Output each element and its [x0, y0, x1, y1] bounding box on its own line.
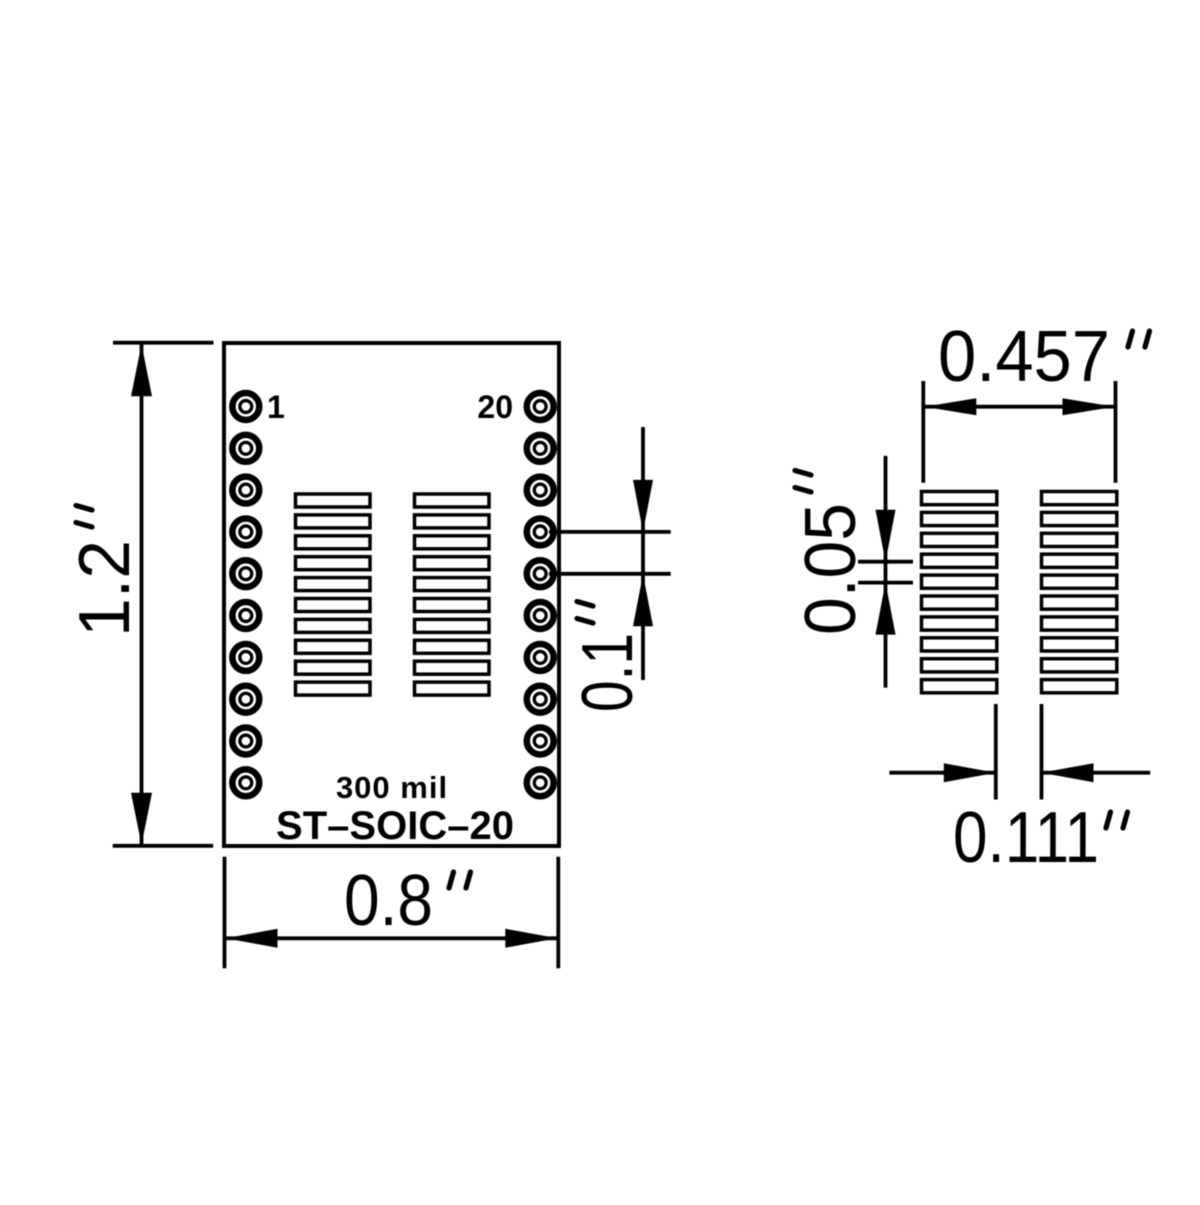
through-hole pad 17 [527, 518, 554, 545]
svg-text:1.2: 1.2 [65, 540, 145, 637]
detail SMD pad right row 6 [1042, 596, 1117, 609]
through-hole pad 1 [232, 393, 259, 420]
svg-text:300 mil: 300 mil [336, 770, 448, 805]
dimension 0.457in label [938, 317, 1150, 397]
svg-text:0.1: 0.1 [568, 633, 648, 712]
SMD pad right row 10 [415, 682, 490, 695]
SMD pad left row 8 [296, 640, 371, 653]
dimension 0.111in line left [889, 771, 995, 775]
SMD pad left row 7 [296, 619, 371, 632]
dimension 0.05in label [791, 471, 871, 636]
through-hole pad 9 [232, 728, 259, 755]
dimension 0.8in label [344, 861, 471, 941]
dimension 1.2in extension line top [113, 341, 214, 345]
dimension 0.1in label [568, 602, 648, 713]
detail SMD pad left row 9 [922, 659, 997, 672]
SMD pad right row 7 [415, 619, 490, 632]
SMD pad right row 1 [415, 494, 490, 507]
SMD pad left row 4 [296, 557, 371, 570]
dimension 1.2in line [140, 344, 144, 845]
dimension 0.8in line [226, 936, 558, 940]
svg-text:0.111: 0.111 [953, 798, 1099, 878]
board outline [224, 343, 559, 846]
through-hole pad 8 [232, 686, 259, 713]
dimension 0.111in extension line left [994, 704, 998, 800]
dimension 0.457in line [924, 405, 1114, 409]
svg-text:0.05: 0.05 [791, 503, 871, 635]
dimension 0.8in extension line left [223, 857, 227, 969]
SMD pad right row 3 [415, 536, 490, 549]
detail SMD pad left row 8 [922, 638, 997, 651]
through-hole pad 19 [527, 435, 554, 462]
through-hole pad 7 [232, 644, 259, 671]
SMD pad right row 9 [415, 661, 490, 674]
dimension 0.05in line [884, 456, 888, 688]
detail SMD pad left row 10 [922, 680, 997, 693]
detail SMD pad left row 2 [922, 512, 997, 525]
through-hole pad 11 [527, 769, 554, 796]
SMD pad right row 5 [415, 578, 490, 591]
detail SMD pad right row 8 [1042, 638, 1117, 651]
svg-text:0.8: 0.8 [344, 861, 433, 941]
through-hole pad 2 [232, 435, 259, 462]
detail SMD pad left row 7 [922, 617, 997, 630]
through-hole pad 3 [232, 477, 259, 504]
dimension 0.1in leader line lower [549, 572, 671, 576]
SMD pad right row 2 [415, 515, 490, 528]
detail SMD pad right row 4 [1042, 554, 1117, 567]
dimension 0.8in extension line right [556, 857, 560, 969]
svg-text:ST–SOIC–20: ST–SOIC–20 [276, 804, 514, 848]
SMD pad left row 3 [296, 536, 371, 549]
through-hole pad 15 [527, 602, 554, 629]
detail SMD pad right row 1 [1042, 492, 1117, 505]
dimension 0.111in arrow right [1042, 763, 1094, 782]
SMD pad right row 6 [415, 599, 490, 612]
dimension 0.111in label [953, 798, 1128, 878]
SMD pad left row 10 [296, 682, 371, 695]
dimension 0.05in arrow upper [876, 510, 896, 562]
dimension 1.2in label [65, 506, 145, 638]
detail SMD pad right row 2 [1042, 512, 1117, 525]
through-hole pad 12 [527, 728, 554, 755]
through-hole pad 6 [232, 602, 259, 629]
through-hole pad 14 [527, 644, 554, 671]
SMD pad left row 2 [296, 515, 371, 528]
detail SMD pad right row 7 [1042, 617, 1117, 630]
detail SMD pad right row 9 [1042, 659, 1117, 672]
dimension 0.457in arrow right [1063, 398, 1115, 415]
dimension 1.2in arrow bottom [131, 793, 152, 845]
detail SMD pad right row 10 [1042, 680, 1117, 693]
through-hole pad 10 [232, 769, 259, 796]
through-hole pad 20 [527, 393, 554, 420]
detail SMD pad right row 3 [1042, 533, 1117, 546]
through-hole pad 16 [527, 560, 554, 587]
SMD pad right row 4 [415, 557, 490, 570]
dimension 1.2in arrow top [131, 344, 152, 396]
detail SMD pad left row 4 [922, 554, 997, 567]
SMD pad left row 5 [296, 578, 371, 591]
SMD pad left row 9 [296, 661, 371, 674]
dimension 0.8in arrow left [226, 929, 278, 948]
dimension 1.2in extension line bottom [113, 844, 214, 848]
detail SMD pad right row 5 [1042, 575, 1117, 588]
dimension 0.8in arrow right [505, 929, 557, 948]
dimension 0.1in leader line upper [549, 530, 671, 534]
through-hole pad 18 [527, 477, 554, 504]
detail SMD pad left row 5 [922, 575, 997, 588]
dimension 0.1in arrow lower [633, 574, 653, 626]
svg-text:0.457: 0.457 [938, 317, 1110, 397]
dimension 0.111in extension line right [1040, 704, 1044, 800]
dimension 0.05in tick upper [858, 560, 913, 564]
detail SMD pad left row 1 [922, 492, 997, 505]
dimension 0.1in line [641, 427, 645, 680]
svg-text:20: 20 [477, 389, 513, 425]
detail SMD pad left row 3 [922, 533, 997, 546]
through-hole pad 13 [527, 686, 554, 713]
dimension 0.1in arrow upper [633, 480, 653, 532]
svg-text:1: 1 [267, 389, 285, 425]
through-hole pad 5 [232, 560, 259, 587]
SMD pad left row 6 [296, 599, 371, 612]
SMD pad right row 8 [415, 640, 490, 653]
dimension 0.457in extension line right [1114, 381, 1118, 483]
dimension 0.05in arrow lower [876, 583, 896, 635]
detail SMD pad left row 6 [922, 596, 997, 609]
dimension 0.457in extension line left [921, 381, 925, 483]
SMD pad left row 1 [296, 494, 371, 507]
dimension 0.05in tick lower [858, 581, 913, 585]
dimension 0.111in line right [1042, 771, 1151, 775]
through-hole pad 4 [232, 518, 259, 545]
dimension 0.111in arrow left [944, 763, 996, 782]
dimension 0.457in arrow left [924, 398, 976, 415]
